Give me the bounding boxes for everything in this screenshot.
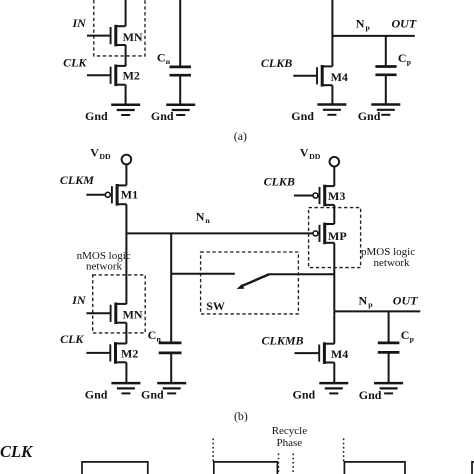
wire: VDD circle to M3 drain	[333, 167, 335, 186]
svg-text:p: p	[366, 23, 371, 32]
ground under M4 (b)	[319, 383, 348, 393]
wire: M1 source down to Nn	[125, 204, 127, 233]
wire: CLKB gate lead (b)	[294, 195, 313, 197]
wire: VDD circle to M1 drain	[125, 165, 127, 186]
wire: M4 drain to Np (b)	[333, 311, 335, 343]
svg-text:C: C	[401, 328, 410, 342]
transistor M1 (pmos)	[105, 184, 138, 206]
wire: Cp(a) top lead	[385, 36, 387, 66]
svg-text:Recycle: Recycle	[272, 425, 308, 437]
svg-text:CLKB: CLKB	[264, 175, 295, 189]
capacitor Cp (a)	[375, 67, 396, 75]
wire: Cp(b) bottom lead	[388, 352, 390, 383]
label Cn (a)	[157, 50, 171, 66]
svg-text:M2: M2	[123, 68, 140, 82]
svg-text:n: n	[166, 57, 171, 66]
svg-text:OUT: OUT	[392, 17, 417, 31]
power VDD terminal circle (b, right)	[330, 157, 340, 167]
svg-text:IN: IN	[71, 293, 87, 307]
svg-text:Gnd: Gnd	[85, 109, 108, 123]
transistor M4 (a)	[317, 65, 348, 87]
wire: IN gate lead (a)	[87, 35, 111, 37]
wire: CLK gate lead (b)	[86, 352, 110, 354]
wire: M4 drain to Np (a)	[331, 36, 333, 67]
transistor MN (b)	[111, 303, 143, 325]
transistor M2 (a)	[111, 65, 140, 87]
label Cn (b)	[148, 328, 162, 344]
wire: M2 source to ground (a)	[125, 85, 127, 105]
label Cp (a)	[398, 51, 412, 67]
wire: Nn horizontal to MP gate	[126, 232, 312, 234]
power VDD (b, left) label	[90, 145, 111, 161]
wire: Cp(a) bottom lead	[385, 75, 387, 105]
wire: Cn(a) bottom lead	[179, 75, 181, 104]
svg-text:(a): (a)	[234, 129, 247, 143]
wire: MN(a) drain up to top edge	[125, 0, 127, 26]
svg-text:C: C	[148, 328, 157, 342]
dotted marker at recycle phase start	[278, 454, 280, 474]
svg-text:C: C	[398, 51, 407, 65]
svg-text:DD: DD	[99, 152, 111, 161]
svg-text:M3: M3	[328, 189, 345, 203]
svg-text:Gnd: Gnd	[291, 109, 314, 123]
svg-text:M4: M4	[331, 70, 348, 84]
svg-text:DD: DD	[309, 152, 321, 161]
svg-text:V: V	[90, 145, 99, 159]
svg-text:M2: M2	[121, 346, 138, 360]
svg-text:p: p	[368, 300, 373, 309]
wire: Nn down to Cn(b)	[170, 233, 172, 342]
svg-text:CLKB: CLKB	[261, 56, 292, 70]
transistor M4 (b)	[319, 342, 348, 364]
(b) pMOS logic network dashed box	[309, 208, 361, 268]
svg-text:(b): (b)	[234, 409, 248, 423]
svg-text:CLK: CLK	[0, 442, 33, 461]
svg-text:IN: IN	[72, 16, 88, 30]
svg-text:Phase: Phase	[277, 437, 303, 449]
ground under M2 (a)	[111, 105, 140, 115]
wire: CLKB gate lead (a)	[293, 75, 317, 77]
svg-text:Gnd: Gnd	[358, 109, 381, 123]
svg-text:network: network	[374, 257, 411, 269]
switch SW dashed box	[201, 252, 299, 314]
wire: CLKMB gate lead	[295, 352, 320, 354]
transistor MN (a)	[111, 25, 143, 47]
waveform CLK pulse 4 (cut off)	[472, 462, 474, 474]
label Cp (b)	[401, 328, 415, 344]
svg-text:MP: MP	[328, 229, 347, 243]
ground under M2 (b)	[111, 383, 140, 393]
wire: Cp(b) top lead	[388, 311, 390, 342]
power VDD (b, right) label	[300, 145, 321, 161]
ground under Cn (b)	[157, 383, 186, 393]
node Np (a)	[356, 16, 371, 32]
wire: CLKM gate lead	[86, 194, 105, 196]
capacitor Cn (b)	[159, 343, 182, 353]
svg-text:Gnd: Gnd	[141, 388, 164, 402]
svg-text:N: N	[356, 16, 365, 30]
wire: MN source to M2 drain (b)	[125, 323, 127, 344]
wire: switch right lead to MP source column	[270, 273, 334, 275]
svg-text:V: V	[300, 145, 309, 159]
svg-text:M4: M4	[331, 347, 348, 361]
node Nn	[196, 209, 211, 225]
transistor MP (pmos)	[313, 223, 347, 245]
svg-text:p: p	[407, 57, 412, 66]
capacitor Cn (a)	[170, 67, 192, 75]
wire: MP source down to Np (b)	[333, 243, 335, 312]
svg-text:network: network	[86, 261, 123, 273]
transistor M3 (pmos)	[313, 185, 345, 207]
svg-text:SW: SW	[206, 299, 225, 313]
svg-text:p: p	[410, 335, 415, 344]
node Np (b)	[359, 294, 374, 310]
(a) nMOS logic network dashed box (cut off at top)	[94, 0, 145, 56]
wire: Np horizontal (b)	[334, 310, 420, 312]
wire: M4 source to ground (b)	[333, 363, 335, 383]
dotted marker at recycle phase end	[292, 454, 294, 474]
switch SW blade	[237, 274, 270, 289]
wire: MN source to M2 drain (a)	[125, 45, 127, 66]
svg-text:N: N	[196, 209, 205, 223]
ground under Cp (b)	[374, 383, 403, 393]
svg-text:MN: MN	[123, 307, 143, 321]
svg-text:CLKM: CLKM	[60, 173, 94, 187]
dotted marker at pulse 3 rising edge	[343, 439, 345, 462]
svg-text:C: C	[157, 50, 166, 64]
ground under Cn (a)	[166, 105, 195, 115]
label nMOS logic network	[77, 250, 131, 272]
wire: M4 source to ground (a)	[331, 85, 333, 104]
waveform CLK pulse 3	[344, 462, 405, 474]
capacitor Cp (b)	[378, 343, 400, 353]
power VDD terminal circle (b, left)	[122, 155, 132, 165]
svg-text:CLK: CLK	[60, 332, 84, 346]
svg-text:Gnd: Gnd	[293, 388, 316, 402]
wire: Cn(b) bottom lead	[170, 353, 172, 383]
ground under M4 (a)	[317, 105, 346, 115]
wire: Cn(a) top lead from top edge	[179, 0, 181, 66]
svg-text:Gnd: Gnd	[85, 388, 108, 402]
svg-text:M1: M1	[121, 188, 138, 202]
svg-text:n: n	[205, 216, 210, 225]
waveform CLK pulse 2	[214, 462, 278, 474]
svg-text:N: N	[359, 294, 368, 308]
wire: IN gate lead (b)	[86, 312, 110, 314]
wire: Np node horizontal (a)	[332, 35, 414, 37]
svg-text:OUT: OUT	[393, 294, 418, 308]
label Recycle Phase	[272, 425, 308, 449]
svg-text:Gnd: Gnd	[359, 388, 382, 402]
svg-text:CLKMB: CLKMB	[262, 334, 304, 348]
label pMOS logic network	[361, 246, 415, 269]
wire: Nn down to MN(b) drain	[125, 233, 127, 304]
waveform CLK pulse 1	[82, 462, 148, 474]
svg-text:Gnd: Gnd	[151, 109, 174, 123]
wire: switch left lead	[171, 273, 235, 275]
wire: M3 source to MP drain	[333, 205, 335, 224]
ground under Cp (a)	[371, 105, 400, 115]
dotted marker at pulse 2 rising edge	[212, 439, 214, 462]
wire: Np(a) feed from top edge	[331, 0, 333, 36]
wire: M2 source to ground (b)	[125, 362, 127, 383]
transistor M2 (b)	[110, 342, 138, 364]
wire: CLK gate lead (a)	[87, 74, 111, 76]
svg-text:MN: MN	[123, 30, 143, 44]
(b) nMOS logic network dashed box	[93, 275, 146, 333]
svg-text:CLK: CLK	[63, 55, 87, 69]
